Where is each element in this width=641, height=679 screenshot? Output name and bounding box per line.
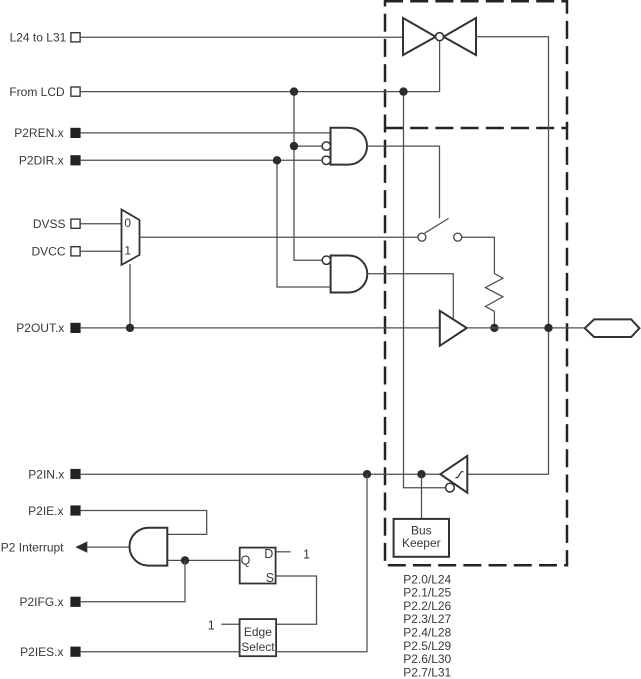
svg-text:P2IFG.x: P2IFG.x (19, 595, 63, 609)
junction Q / P2IFG (181, 556, 189, 564)
wire P2REN.x to AND1 (80, 132, 331, 134)
svg-text:1: 1 (208, 619, 215, 633)
svg-text:DVCC: DVCC (31, 245, 65, 259)
svg-text:DVSS: DVSS (33, 217, 66, 231)
pin square DVSS (open) (71, 219, 80, 228)
svg-text:P2.0/L24: P2.0/L24 (403, 572, 451, 586)
Edge Select block (240, 619, 277, 656)
svg-text:P2IE.x: P2IE.x (28, 504, 63, 518)
svg-text:L24 to L31: L24 to L31 (10, 31, 67, 45)
svg-text:D: D (264, 547, 273, 561)
wire From LCD horizontal (80, 91, 440, 93)
junction P2IN / bus keeper (417, 470, 425, 478)
wire P2DIR.x branch to AND2 lower input (277, 160, 331, 287)
wire transmission gate output to right rail, down to pad net, into Schmitt input (467, 37, 548, 475)
junction resistor / pad net (490, 324, 498, 332)
svg-text:P2 Interrupt: P2 Interrupt (1, 540, 64, 554)
svg-text:Keeper: Keeper (402, 536, 441, 550)
wire P2DIR.x to AND1 bottom bubble (80, 159, 322, 161)
switch S1 (418, 218, 462, 241)
junction From LCD / branch (290, 87, 298, 95)
pin square P2IE.x (filled) (71, 506, 80, 515)
svg-text:P2DIR.x: P2DIR.x (19, 154, 64, 168)
flip-flop U8 (240, 547, 276, 585)
AND gate U4 (enable, bottom) (322, 256, 367, 293)
pin square P2IES.x (filled) (71, 647, 80, 656)
pin square From LCD (open) (71, 87, 80, 96)
wire switch to resistor top (462, 237, 495, 273)
svg-text:P2.5/L29: P2.5/L29 (403, 639, 451, 653)
svg-text:P2.3/L27: P2.3/L27 (403, 612, 451, 626)
dashed pad-section divider (385, 127, 567, 130)
wire P2IE.x to interrupt gate (80, 511, 207, 535)
svg-text:P2.7/L31: P2.7/L31 (403, 665, 451, 679)
junction P2DIR.x / branch (273, 156, 281, 164)
wire buffer output to pad (467, 327, 585, 329)
wire edge-select tie-high (221, 623, 239, 625)
svg-text:P2OUT.x: P2OUT.x (16, 321, 64, 335)
resistor R1 (485, 274, 503, 312)
output buffer U5 (440, 311, 467, 346)
wire edge select output to P2IN rail (276, 474, 367, 652)
wire mux output to switch (140, 236, 418, 238)
pin square P2IN.x (filled) (71, 469, 80, 478)
wire stub to AND1 middle bubble (294, 145, 322, 147)
junction pad net / right rail (544, 324, 552, 332)
wire P2IES.x to edge select (80, 651, 240, 653)
svg-text:P2.1/L25: P2.1/L25 (403, 586, 451, 600)
svg-text:1: 1 (124, 243, 131, 257)
wire L24toL31 to transmission gate (80, 36, 403, 38)
wire From LCD down-rail to input-enable bubble (404, 92, 446, 488)
junction branch / AND1 stub (290, 142, 298, 150)
pin square P2IFG.x (filled) (71, 597, 80, 606)
wire P2OUT.x to buffer (80, 327, 440, 329)
svg-text:From LCD: From LCD (9, 85, 65, 99)
pad P2.x (hexagon) (585, 319, 640, 337)
dashed module boundary box (385, 1, 567, 565)
arrowhead P2 Interrupt (75, 541, 87, 552)
svg-text:P2REN.x: P2REN.x (14, 126, 63, 140)
AND gate U7 (interrupt, mirrored) (129, 528, 167, 566)
Schmitt trigger U6 (input buffer) (440, 456, 467, 493)
wire D input tie-high (276, 551, 291, 553)
junction From LCD / down-rail (399, 87, 407, 95)
svg-text:P2.4/L28: P2.4/L28 (403, 626, 451, 640)
svg-text:P2IN.x: P2IN.x (28, 467, 64, 481)
pin square P2OUT.x (filled) (71, 323, 80, 332)
wire P2IN.x from Schmitt output (80, 473, 440, 475)
wire transmission gate control riser (439, 41, 441, 92)
svg-text:P2.6/L30: P2.6/L30 (403, 652, 451, 666)
wire From LCD branch to gate bubbles (294, 92, 322, 261)
wire interrupt gate output (87, 546, 131, 548)
mux U3 (DVSS/DVCC select) (122, 210, 140, 265)
svg-text:P2.2/L26: P2.2/L26 (403, 599, 451, 613)
wire AND2 output to buffer enable (367, 274, 453, 320)
pin square P2DIR.x (filled) (71, 156, 80, 165)
wire AND1 output to switch lever (367, 146, 440, 218)
pin square DVCC (open) (71, 247, 80, 256)
svg-text:P2IES.x: P2IES.x (20, 645, 63, 659)
svg-text:Edge: Edge (244, 625, 272, 639)
svg-text:0: 0 (124, 216, 131, 230)
wire P2IFG.x riser (80, 560, 185, 601)
AND gate U2 (REN/DIR, top) (322, 128, 367, 165)
pin square L24 to L31 (open) (71, 33, 80, 42)
junction P2IN / edge-select rail (363, 470, 371, 478)
svg-text:Q: Q (241, 554, 251, 568)
wire interrupt gate lower input from Q (167, 559, 239, 561)
wire resistor bottom to pad net (493, 311, 495, 328)
wire DVCC to mux (80, 250, 122, 252)
pin name list (403, 572, 451, 679)
svg-text:Select: Select (241, 640, 275, 654)
wire S input from edge select (276, 576, 317, 624)
wire DVSS to mux (80, 223, 122, 225)
junction P2OUT.x / mux select (126, 324, 134, 332)
Bus Keeper block (394, 519, 449, 557)
wire bus keeper riser (421, 474, 423, 519)
pin square P2REN.x (filled) (71, 128, 80, 137)
wire mux select from P2OUT line (129, 264, 131, 328)
svg-text:S: S (266, 571, 274, 585)
svg-text:1: 1 (303, 547, 310, 561)
transmission gate U1 (LCD pass gate) (403, 18, 476, 55)
